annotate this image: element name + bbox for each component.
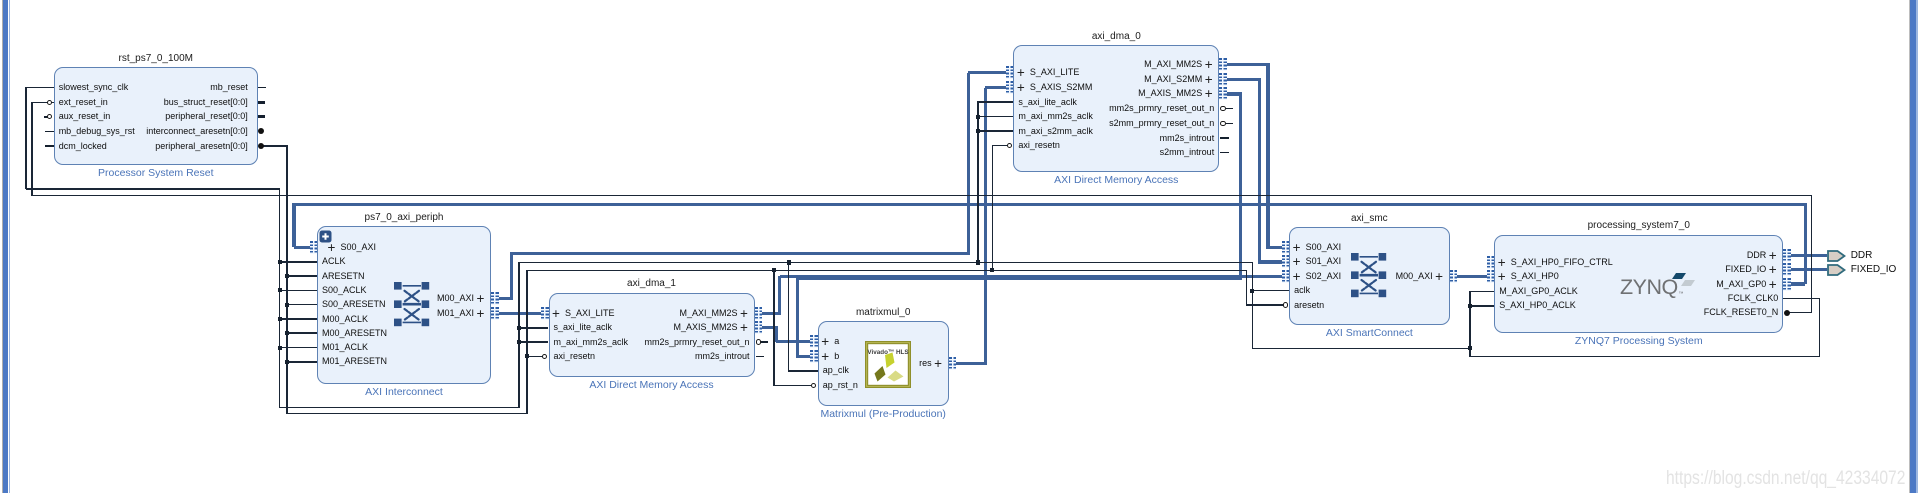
wire junction [285, 303, 289, 307]
pin aux_reset_in [59, 111, 111, 122]
pin FCLK_CLK0 [1728, 293, 1779, 304]
wire bus dma0 M_AXIS_MM2S a [1227, 92, 1242, 95]
wire bus M_AXI_GP0 long run [292, 203, 1807, 206]
pin s_axi_lite_aclk dma0 [1018, 97, 1077, 108]
pin m_axi_mm2s_aclk dma0 [1018, 111, 1093, 122]
wire clk smc aclk branch [1252, 290, 1289, 292]
pin bus_struct_reset[0:0] [164, 97, 248, 108]
wire clk dma1 column [518, 262, 520, 408]
wire clk interconnect column [279, 188, 281, 408]
wire bus M00_AXI run y253 [511, 252, 970, 255]
wire bus dma0 M_AXI_S2MM to S01_AXI [1259, 260, 1282, 263]
wire junction [1250, 289, 1254, 293]
pin peripheral_reset[0:0] [165, 111, 248, 122]
wire junction [976, 129, 980, 133]
pin S_AXI_HP0_ACLK [1499, 300, 1576, 311]
pin S00_ACLK [322, 285, 367, 296]
wire bus dma0 M_AXI_S2MM a [1227, 78, 1261, 81]
wire bus M00_AXI to S_AXI_LITE [968, 71, 1007, 74]
wire bus dma1 M_AXI_MM2S to S02_AXI [780, 275, 1283, 278]
wire clk fclk riser [1819, 298, 1821, 357]
pin M01_AXI [477, 309, 485, 319]
wire clk run y356 [1469, 356, 1820, 358]
pin axi_resetn dma0 [1018, 140, 1060, 151]
wire bus M00_AXI b [510, 252, 513, 299]
wire junction [278, 346, 282, 350]
pin interconnect_aresetn[0:0] [146, 126, 248, 137]
wire clk m_axi_mm2s_aclk dma1 branch [519, 341, 549, 343]
wire bus FIXED_IO to port [1791, 268, 1828, 271]
pin ext_reset_in [59, 97, 108, 108]
wire clk ACLK branch [280, 261, 317, 263]
block axi_dma_1 (AXI Direct Memory Access) [549, 293, 755, 378]
pin mb_debug_sys_rst [59, 126, 135, 137]
wire clk M01_ACLK branch [280, 347, 317, 349]
wire bus dma0 M_AXIS_MM2S b [1239, 94, 1242, 281]
wire clk run y407 [279, 407, 520, 409]
pin M_AXI_MM2S dma0 [1205, 60, 1213, 70]
pin s2mm_introut dma0 [1160, 147, 1215, 158]
pin a [821, 337, 829, 347]
external port FIXED_IO [1827, 264, 1846, 276]
pin FCLK_RESET0_N [1704, 307, 1779, 318]
wire fclk_reset long run y195 [32, 195, 1812, 197]
wire junction [787, 260, 791, 264]
wire rst dma0 column [992, 145, 994, 271]
pin M01_ACLK [322, 342, 368, 353]
wire junction [285, 360, 289, 364]
wire junction [1468, 346, 1472, 350]
wire rst axi_resetn dma0 branch [992, 145, 1008, 147]
left window edge bar [2, 0, 3, 493]
wire rst ap_rst_n drop [773, 270, 775, 386]
pin dcm_locked [59, 141, 107, 152]
wire bus dma0 M_AXIS_MM2S run y278 [796, 277, 1240, 280]
watermark text [1666, 467, 1905, 490]
wire junction [976, 260, 980, 264]
pin M00_AXI smc [1435, 272, 1443, 282]
wire junction [285, 274, 289, 278]
wire bus dma0 M_AXI_MM2S to S00_AXI [1268, 246, 1283, 249]
wire bus dma1 M_AXIS_MM2S a [762, 326, 778, 329]
wire bus dma0 M_AXI_MM2S b [1266, 65, 1269, 250]
pin M_AXI_GP0_ACLK [1499, 286, 1578, 297]
pin mm2s_prmry_reset_out_n dma1 [644, 337, 749, 348]
external port DDR [1827, 250, 1846, 262]
wire bus res to S_AXIS_S2MM [985, 86, 1007, 89]
wire clk run y348 [1252, 348, 1470, 350]
wire junction [278, 260, 282, 264]
pin M01_ARESETN [322, 356, 387, 367]
pin S00_ARESETN [322, 299, 386, 310]
wire fclk_reset0_n stub [1789, 312, 1812, 314]
pin aresetn smc [1294, 300, 1324, 311]
wire clk M00_ACLK branch [280, 318, 317, 320]
wire clk dma0 column [977, 101, 979, 262]
pin S01_AXI smc [1293, 257, 1301, 267]
wire rst peripheral_aresetn out [263, 145, 288, 147]
wire rst dma1 column [526, 270, 528, 415]
pin DDR [1769, 251, 1777, 261]
wire bus DDR to port [1791, 254, 1828, 257]
wire bus dma1 M_AXI_MM2S a [762, 312, 781, 315]
wire rst M01_ARESETN branch [287, 361, 317, 363]
pin M_AXIS_MM2S dma1 [740, 323, 748, 333]
wire bus dma1 M_AXIS_MM2S b [774, 326, 777, 342]
pin ap_clk [823, 365, 849, 376]
pin M_AXI_S2MM dma0 [1205, 75, 1213, 85]
wire clk ps7 column [1469, 291, 1471, 357]
pin FIXED_IO [1769, 265, 1777, 275]
wire fclk_reset ext_reset_in feed [32, 102, 54, 104]
pin s2mm_prmry_reset_out_n dma0 [1109, 118, 1214, 129]
AXI Interconnect crossbar icon [394, 282, 430, 327]
wire bus M_AXI_GP0 b [1804, 204, 1807, 284]
wire clk slowest_sync_clk feed [26, 87, 54, 89]
block matrixmul_0 (Matrixmul Pre-Production HLS IP) [818, 321, 949, 405]
wire junction [285, 331, 289, 335]
pin M00_AXI [477, 294, 485, 304]
wire bus M_AXI_GP0 c [292, 204, 295, 247]
wire rst axi_resetn dma1 branch [527, 356, 546, 358]
wire fclk_reset right riser [1811, 196, 1813, 314]
wire junction [990, 268, 994, 272]
block axi_smc (AXI SmartConnect) [1289, 227, 1450, 325]
wire junction [278, 288, 282, 292]
wire junction [517, 326, 521, 330]
block rst_ps7_0_100M (Processor System Reset) [54, 67, 258, 165]
pin S00_AXI smc [1293, 243, 1301, 253]
wire junction [525, 354, 529, 358]
pin M00_ARESETN [322, 328, 387, 339]
wire bus M_AXI_GP0 a [1791, 282, 1805, 285]
pin ARESETN [322, 271, 365, 282]
pin S_AXI_HP0_FIFO_CTRL [1498, 258, 1506, 268]
pin S_AXIS_S2MM dma0 [1017, 83, 1025, 93]
wire bus dma0 M_AXI_S2MM b [1258, 79, 1261, 263]
wire clk ap_clk drop [788, 263, 790, 372]
block axi_dma_0 (AXI Direct Memory Access) [1013, 45, 1219, 172]
wire clk s_axi_lite_aclk dma1 branch [519, 327, 549, 329]
pin aclk smc [1294, 285, 1310, 296]
wire bus M_AXI_GP0 to S00_AXI [294, 246, 311, 249]
wire bus M00_AXI a [497, 297, 513, 300]
wire clk left drop [25, 87, 27, 189]
svg-text:™: ™ [1679, 291, 1684, 297]
block processing_system7_0 (ZYNQ7 Processing System) [1494, 235, 1783, 334]
pin ACLK [322, 256, 346, 267]
wire clk S_AXI_HP0_ACLK branch [1470, 305, 1494, 307]
wire bus res a [956, 362, 987, 365]
wire bus M01_AXI to dma1 S_AXI_LITE [497, 312, 542, 315]
svg-text:ZYNQ: ZYNQ [1620, 275, 1678, 298]
ZYNQ logo [1618, 268, 1702, 298]
pin ap_rst_n [823, 380, 858, 391]
wire clk s_axi_lite_aclk dma0 branch [978, 101, 1014, 103]
wire rst interconnect column [286, 145, 288, 414]
pin mb_reset [210, 82, 248, 93]
wire junction [772, 268, 776, 272]
wire bus dma0 M_AXIS_MM2S to b [798, 355, 812, 358]
wire clk run y189 [26, 188, 281, 190]
pin mm2s_prmry_reset_out_n dma0 [1109, 103, 1214, 114]
wire junction [1468, 304, 1472, 308]
wire fclk_reset left drop [31, 102, 33, 196]
wire rst run y413 [286, 413, 528, 415]
pin M_AXIS_MM2S dma0 [1205, 89, 1213, 99]
block ps7_0_axi_periph (AXI Interconnect) [317, 226, 491, 384]
wire clk main run y262 [519, 262, 1253, 264]
pin S02_AXI smc [1293, 272, 1301, 282]
wire junction [517, 340, 521, 344]
wire bus dma0 M_AXI_MM2S a [1227, 63, 1270, 66]
pin S00_AXI [328, 243, 336, 253]
expander icon ps7_0_axi_periph [319, 230, 332, 243]
pin M_AXI_GP0 [1769, 280, 1777, 290]
right window edge bar [1909, 0, 1910, 493]
wire junction [976, 115, 980, 119]
pin M_AXI_MM2S dma1 [740, 309, 748, 319]
wire rst ap_rst_n branch [774, 385, 811, 387]
wire bus res b [984, 88, 987, 364]
wire clk m_axi_mm2s_aclk dma0 branch [978, 116, 1014, 118]
wire rst smc drop [1246, 270, 1248, 306]
wire clk fclk_clk0 stub [1783, 298, 1820, 300]
pin m_axi_mm2s_aclk dma1 [554, 337, 629, 348]
pin m_axi_s2mm_aclk dma0 [1018, 126, 1093, 137]
pin slowest_sync_clk [59, 82, 129, 93]
pin mm2s_introut dma1 [695, 351, 750, 362]
wire clk ap_clk branch [789, 370, 818, 372]
wire bus dma0 M_AXIS_MM2S c [796, 279, 799, 358]
AXI SmartConnect crossbar icon [1351, 253, 1387, 298]
wire clk M_AXI_GP0_ACLK branch [1470, 291, 1494, 293]
wire rst main run y270 [527, 270, 1248, 272]
wire bus M00_AXI smc to S_AXI_HP0 [1457, 275, 1488, 278]
wire junction [278, 317, 282, 321]
pin axi_resetn dma1 [554, 351, 596, 362]
wire rst M00_ARESETN branch [287, 332, 317, 334]
pin S_AXI_HP0 [1498, 272, 1506, 282]
wire clk m_axi_s2mm_aclk dma0 branch [978, 130, 1014, 132]
wire bus M00_AXI c [967, 73, 970, 254]
wire rst ARESETN branch [287, 275, 317, 277]
wire rst smc aresetn branch [1247, 304, 1284, 306]
pin s_axi_lite_aclk dma1 [554, 322, 613, 333]
wire bus dma1 M_AXIS_MM2S to a [776, 340, 811, 343]
wire clk S00_ACLK branch [280, 290, 317, 292]
pin mm2s_introut dma0 [1160, 133, 1215, 144]
Vivado HLS logo [865, 341, 911, 388]
pin res [934, 359, 942, 369]
wire bus dma1 M_AXI_MM2S b [778, 276, 781, 315]
pin M00_ACLK [322, 314, 368, 325]
wire rst S00_ARESETN branch [287, 304, 317, 306]
pin peripheral_aresetn[0:0] [155, 141, 248, 152]
pin S_AXI_LITE dma1 [552, 309, 560, 319]
pin S_AXI_LITE dma0 [1017, 68, 1025, 78]
pin b [821, 352, 829, 362]
wire clk smc column [1252, 263, 1254, 350]
